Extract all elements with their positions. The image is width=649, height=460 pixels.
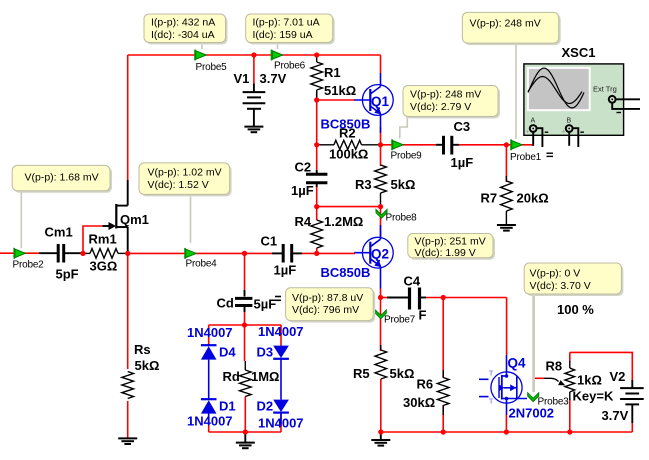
wire Qm1 gate net: [83, 226, 103, 253]
svg-text:Probe1: Probe1: [510, 152, 542, 163]
resistor R6: [403, 370, 449, 415]
wire diode box right top: [280, 325, 282, 346]
svg-text:+: +: [526, 130, 530, 136]
junction R1 bottom / Q1 base: [314, 97, 319, 102]
junction Qm1 source node: [125, 251, 130, 256]
svg-text:R7: R7: [481, 191, 498, 206]
junction R1 top: [314, 52, 319, 57]
svg-text:V(p-p): 248 mV: V(p-p): 248 mV: [410, 89, 481, 101]
svg-text:1N4007: 1N4007: [187, 414, 233, 429]
wire R3 leads: [380, 145, 382, 166]
svg-text:V(p-p): 0 V: V(p-p): 0 V: [530, 268, 581, 280]
capacitor C1: [261, 234, 303, 278]
junction R2 left / C2 top: [314, 142, 319, 147]
capacitor Cd: [217, 290, 277, 312]
wire mid rail C2 to R3 bottom: [317, 206, 381, 208]
svg-text:Q2: Q2: [371, 247, 389, 262]
callout line to Probe4: [190, 194, 192, 243]
wire R1 bottom to node: [316, 92, 318, 145]
voltage source V2 3.7V: [602, 369, 644, 423]
wire Qm1 source down to Rs: [127, 253, 129, 369]
wire top supply rail: [128, 54, 381, 56]
svg-text:R3: R3: [355, 177, 372, 192]
wire Qm1 source to Probe4 to C1: [128, 252, 272, 254]
ground for R7: [497, 225, 516, 231]
svg-text:Qm1: Qm1: [120, 212, 149, 227]
svg-text:51kΩ: 51kΩ: [324, 83, 356, 98]
svg-text:V(p-p): 248 mV: V(p-p): 248 mV: [470, 18, 541, 30]
svg-text:R6: R6: [417, 377, 434, 392]
wire left vertical from rail to Qm1 drain: [127, 55, 129, 180]
wire node down to Q4 drain: [506, 298, 508, 356]
resistor Rm1: [85, 232, 126, 274]
callout line to Probe6: [277, 43, 279, 50]
probe Probe3: [528, 393, 569, 408]
svg-text:BC850B: BC850B: [321, 117, 371, 132]
svg-text:5µF: 5µF: [254, 297, 277, 312]
svg-text:A: A: [531, 118, 536, 125]
junction Q2 emitter / C4: [378, 295, 383, 300]
transistor Q1 BC850B: [354, 73, 393, 133]
callout box V Probe9: [403, 86, 500, 119]
svg-text:D2: D2: [257, 399, 274, 414]
svg-text:1N4007: 1N4007: [258, 416, 304, 431]
junction C2 bottom: [314, 204, 319, 209]
wire R5 bottom to ground rail: [380, 379, 382, 432]
junction ground rail R8: [567, 429, 572, 434]
junction C4 / R6: [441, 295, 446, 300]
svg-text:D4: D4: [219, 345, 236, 360]
svg-text:Probe5: Probe5: [196, 62, 228, 73]
svg-text:XSC1: XSC1: [562, 45, 596, 60]
probe Probe5: [195, 50, 227, 74]
callout box V Probe3: [524, 263, 623, 296]
svg-text:5kΩ: 5kΩ: [391, 177, 416, 192]
callout line to Probe5: [201, 43, 203, 50]
transistor Qm1: [103, 180, 149, 253]
svg-text:T: T: [489, 399, 494, 406]
svg-text:1kΩ: 1kΩ: [577, 373, 602, 388]
svg-text:3.7V: 3.7V: [260, 71, 287, 86]
wire C1 to Q2 base: [302, 252, 355, 254]
wire node R1 to Q1 base: [317, 99, 355, 101]
svg-text:C2: C2: [295, 160, 312, 175]
svg-text:Probe4: Probe4: [186, 259, 218, 270]
svg-text:C3: C3: [454, 119, 471, 134]
svg-text:C1: C1: [261, 234, 278, 249]
probe Probe2: [13, 248, 45, 271]
wire diode box right bottom: [280, 412, 282, 432]
junction R3 bottom / Q2 collector: [378, 204, 383, 209]
callout box V Probe4: [139, 163, 232, 197]
svg-text:Cd: Cd: [217, 296, 234, 311]
svg-text:1MΩ: 1MΩ: [251, 369, 279, 384]
callout line to Probe3: [532, 294, 535, 392]
svg-text:D3: D3: [257, 345, 274, 360]
svg-text:V(dc): 2.79 V: V(dc): 2.79 V: [410, 101, 471, 113]
svg-text:5kΩ: 5kΩ: [390, 366, 415, 381]
junction Cm1 / Rm1 / gate: [80, 251, 85, 256]
wire diode box top rail: [209, 324, 281, 326]
diode D1 1N4007: [201, 399, 236, 425]
diode D3 1N4007: [257, 345, 289, 400]
wire Cd bottom to diode rail: [244, 308, 246, 361]
wire pot wiper stub: [534, 377, 544, 379]
callout box V Probe7: [286, 288, 376, 323]
wire R7 top lead: [505, 145, 507, 182]
svg-text:I(p-p): 432 nA: I(p-p): 432 nA: [151, 17, 215, 29]
svg-text:1N4007: 1N4007: [187, 325, 233, 340]
wire V1 top lead: [253, 55, 255, 84]
svg-text:C4: C4: [404, 274, 421, 289]
wire Q1 emitter to node: [380, 127, 382, 145]
svg-text:Probe9: Probe9: [391, 151, 423, 162]
svg-text:Probe3: Probe3: [538, 397, 570, 408]
probe Probe1: [510, 139, 553, 163]
junction ground rail Q4: [504, 429, 509, 434]
callout box I Probe5: [144, 14, 228, 45]
probe Probe8: [376, 210, 417, 224]
svg-text:V(p-p): 1.02 mV: V(p-p): 1.02 mV: [148, 167, 222, 179]
svg-text:I(dc): 159 uA: I(dc): 159 uA: [253, 29, 313, 41]
wire R6 leads: [442, 298, 444, 379]
resistor R4: [295, 214, 364, 248]
capacitor C2: [291, 160, 327, 199]
callout box V Q2 emitter: [408, 234, 495, 260]
wire input net to Cm1: [0, 252, 39, 254]
wire C4 right to R6 node: [426, 297, 507, 299]
svg-text:V(dc): 3.70 V: V(dc): 3.70 V: [530, 280, 591, 292]
svg-text:R8: R8: [546, 359, 563, 374]
svg-text:100kΩ: 100kΩ: [329, 147, 368, 162]
callout box I Probe6: [246, 14, 335, 45]
svg-text:R4: R4: [295, 214, 312, 229]
ground for Rs: [118, 438, 137, 444]
wire Q1 collector to rail: [380, 55, 382, 73]
wire C3 to Probe1 node: [459, 144, 534, 146]
resistor R1: [311, 55, 356, 100]
wire diode box left bottom: [208, 413, 210, 432]
svg-text:Rd: Rd: [223, 369, 240, 384]
svg-text:3.7V: 3.7V: [602, 408, 629, 423]
junction node A (V1 top): [251, 52, 256, 57]
svg-text:F: F: [419, 308, 427, 323]
svg-text:Probe8: Probe8: [386, 213, 418, 224]
junction diode rail bottom: [243, 429, 248, 434]
wire C2 vertical links: [316, 145, 318, 170]
svg-text:Q4: Q4: [508, 356, 527, 371]
svg-text:+: +: [562, 130, 566, 136]
svg-text:1µF: 1µF: [291, 183, 314, 198]
svg-text:I(dc): -304 uA: I(dc): -304 uA: [151, 29, 215, 41]
wire Cd tap from input net: [244, 253, 246, 290]
wire R8 top feed: [570, 352, 633, 380]
svg-text:V(dc): 796 mV: V(dc): 796 mV: [292, 304, 359, 316]
svg-text:R1: R1: [324, 65, 341, 80]
wire diode box bottom rail: [209, 431, 281, 433]
stray mark = near C4 node: [275, 297, 281, 301]
svg-text:T: T: [489, 371, 494, 378]
svg-text:V(dc): 1.52 V: V(dc): 1.52 V: [148, 179, 209, 191]
svg-text:V(dc): 1.99 V: V(dc): 1.99 V: [415, 247, 476, 259]
svg-text:30kΩ: 30kΩ: [403, 395, 435, 410]
ground for output rail: [371, 432, 390, 446]
svg-text:Probe2: Probe2: [13, 260, 45, 271]
junction R7 branch: [504, 142, 509, 147]
svg-text:V1: V1: [234, 71, 250, 86]
svg-text:5kΩ: 5kΩ: [135, 358, 160, 373]
svg-text:R5: R5: [353, 366, 370, 381]
svg-text:Probe7: Probe7: [384, 315, 416, 326]
svg-text:1µF: 1µF: [451, 155, 474, 170]
svg-text:20kΩ: 20kΩ: [517, 191, 549, 206]
wire Q2 collector from mid rail: [380, 207, 382, 238]
wire Q4 source to rail: [505, 415, 507, 432]
resistor R5: [353, 345, 414, 381]
svg-text:V(p-p): 1.68 mV: V(p-p): 1.68 mV: [25, 172, 99, 184]
wire V2 bottom to rail: [631, 423, 633, 432]
diode D2 1N4007: [257, 399, 289, 425]
svg-text:I(p-p): 7.01 uA: I(p-p): 7.01 uA: [253, 17, 320, 29]
wire Rs bottom to ground: [127, 401, 129, 438]
junction R4 bottom: [314, 251, 319, 256]
svg-text:B: B: [567, 118, 572, 125]
svg-text:V2: V2: [610, 369, 626, 384]
callout box V Probe1: [462, 12, 560, 45]
resistor R3: [355, 165, 415, 207]
wire diode box left top: [208, 325, 210, 345]
svg-text:Probe6: Probe6: [274, 61, 306, 72]
probe Probe7: [375, 310, 415, 326]
capacitor C4: [387, 274, 426, 310]
wire R8 bottom to rail: [569, 399, 571, 432]
svg-text:5pF: 5pF: [56, 267, 79, 282]
ground for V1: [244, 127, 263, 133]
svg-text:D1: D1: [219, 399, 236, 414]
capacitor Cm1: [39, 225, 83, 282]
svg-text:Q1: Q1: [371, 94, 390, 109]
probe Probe4: [185, 248, 217, 270]
junction diode rail top: [242, 322, 247, 327]
svg-text:1N4007: 1N4007: [258, 324, 304, 339]
resistor Rs: [122, 342, 159, 398]
callout box V Probe2: [12, 165, 112, 192]
junction ground rail R5: [378, 429, 383, 434]
svg-text:1.2MΩ: 1.2MΩ: [324, 214, 363, 229]
diode D4 1N4007: [201, 344, 236, 400]
capacitor C3: [436, 119, 473, 170]
junction Q1 emitter / R2 right: [378, 142, 383, 147]
potentiometer R8: [544, 359, 614, 404]
resistor Rd: [223, 361, 280, 397]
callout line to Probe1: [515, 43, 517, 139]
wire Q2 emitter to C4 node: [380, 288, 382, 298]
wire bottom ground rail: [381, 431, 633, 433]
transistor Q2 BC850B: [354, 225, 393, 289]
wire Rd bottom red: [244, 397, 246, 433]
junction Cd tap: [242, 251, 247, 256]
svg-text:100 %: 100 %: [557, 302, 594, 317]
svg-text:V(p-p): 251 mV: V(p-p): 251 mV: [415, 236, 486, 248]
wire node Probe9 to C3: [381, 144, 437, 146]
svg-text:3GΩ: 3GΩ: [90, 259, 118, 274]
svg-text:Ext Trg: Ext Trg: [593, 85, 617, 94]
svg-text:Cm1: Cm1: [45, 225, 73, 240]
resistor R2: [318, 126, 378, 162]
svg-text:BC850B: BC850B: [321, 265, 371, 280]
Ext Trig terminal: [609, 96, 616, 103]
wire C4 node down to R5: [380, 298, 382, 352]
ground for diode network: [236, 432, 255, 448]
junction ground rail R6: [441, 429, 446, 434]
svg-text:V(p-p): 87.8 uV: V(p-p): 87.8 uV: [292, 292, 363, 304]
svg-text:1µF: 1µF: [274, 263, 297, 278]
probe Probe9: [391, 139, 423, 161]
transistor Q4 2N7002: [479, 355, 527, 415]
svg-text:Key=K: Key=K: [573, 389, 614, 404]
wire R4 between nodes: [316, 207, 318, 220]
resistor R7: [481, 176, 549, 225]
callout line to Probe2: [20, 191, 22, 248]
svg-text:2N7002: 2N7002: [509, 406, 555, 421]
wire hidden branch to pot wiper: [533, 298, 535, 379]
callout line to Probe9: [400, 117, 408, 139]
svg-text:Rs: Rs: [134, 342, 151, 357]
svg-text:Rm1: Rm1: [89, 232, 117, 247]
probe Probe6: [272, 50, 306, 72]
oscilloscope XSC1: [524, 45, 640, 147]
voltage source V1 3.7V: [234, 71, 287, 127]
